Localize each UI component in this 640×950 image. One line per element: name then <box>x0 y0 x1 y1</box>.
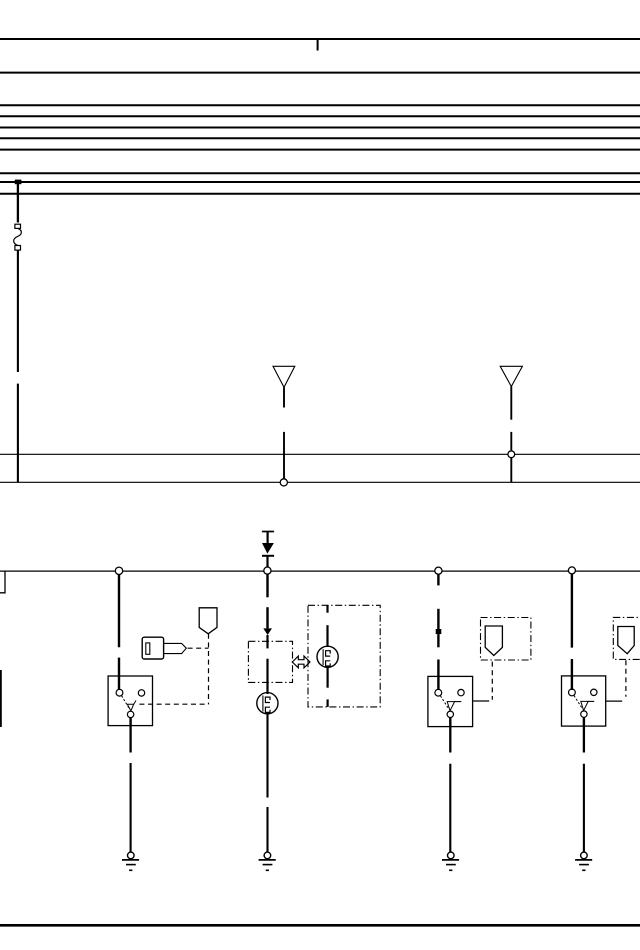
dash-dot component box B <box>308 605 380 707</box>
mid rail B <box>0 481 640 483</box>
switch 3 arrow bar <box>588 700 594 702</box>
switch 2 arrow head <box>447 702 454 711</box>
switch 1 contact top-right <box>138 690 144 696</box>
antenna-style triangle 1 <box>273 366 295 387</box>
wire column 1 lower <box>118 658 120 690</box>
diode D1 triangle <box>262 543 274 554</box>
switch 2 lever <box>440 696 448 709</box>
bus line 1 (top rail) <box>0 38 640 40</box>
dash-dot component box A <box>248 641 292 682</box>
pennant tag 1 <box>199 608 217 634</box>
wire column 4 upper <box>571 574 573 648</box>
wire column 2 segment c <box>266 635 268 648</box>
node circle column 2 <box>264 567 271 574</box>
wire below switch 1 lower <box>130 763 132 852</box>
switch 3 contact bottom <box>581 711 587 717</box>
wire column 1 upper <box>118 574 120 647</box>
ground G4 <box>575 852 592 870</box>
bus line 2 <box>0 72 640 74</box>
wire column 3 segment a <box>437 574 439 585</box>
bus line 8 <box>0 172 640 174</box>
bus line 9 <box>0 181 640 183</box>
bulb L2 <box>317 646 338 667</box>
antenna-style triangle 2 <box>500 366 522 386</box>
distribution rail (y=571) <box>0 570 640 572</box>
vertical dashed mechanical linkage 1 <box>208 634 210 704</box>
pennant tag 3 <box>618 627 634 654</box>
stem of triangle 1, lower <box>283 432 285 479</box>
connector circle of triangle 2 on rail A <box>508 451 515 458</box>
wire below switch 1 upper <box>129 726 131 753</box>
ground G1 <box>122 852 139 870</box>
wire column 3 segment c <box>437 634 439 647</box>
bottom border line <box>0 924 640 927</box>
pennant box 2 <box>481 618 531 661</box>
switch 2 contact top-left <box>435 689 442 696</box>
switch 3 actuation stub <box>606 700 623 702</box>
wire below switch 2 inside box <box>449 718 451 727</box>
wire below switch 2 lower <box>449 764 451 853</box>
stem of triangle 1, upper <box>283 387 285 407</box>
wire below fuse, upper segment <box>17 250 19 372</box>
ignition key symbol <box>142 637 186 659</box>
wire in box B top tick <box>326 605 328 612</box>
direction arrow on wire column 2 <box>263 628 272 635</box>
vertical dashed mechanical linkage 2 <box>491 662 493 700</box>
switch 3 contact top-right <box>591 689 597 695</box>
diode D1 wire <box>267 532 269 544</box>
wire in box B bottom tick <box>327 699 329 707</box>
wire below bulb L1 lower <box>266 807 268 852</box>
ground G2 <box>259 852 276 870</box>
wire in box B upper <box>326 625 328 647</box>
node circle column 3 <box>435 567 442 574</box>
switch 2 arrow bar <box>455 701 462 703</box>
pennant tag 2 <box>485 626 502 656</box>
junction square on wire column 3 <box>436 629 442 634</box>
partial switch box at left edge <box>0 670 2 727</box>
bus line 6 <box>0 137 640 139</box>
mid rail A <box>0 453 640 455</box>
switch 2 contact bottom <box>447 711 453 717</box>
switch 1 actuation dashed line <box>139 703 208 705</box>
switch 2 contact top-right <box>458 689 464 695</box>
bus line 10 <box>0 193 640 195</box>
switch 1 arrow head <box>127 704 133 711</box>
node circle column 1 <box>115 567 122 574</box>
junction square on bus line 9 <box>15 180 22 185</box>
wire below switch 1 inside box <box>129 718 131 726</box>
pennant box 3 <box>613 617 640 659</box>
wire column 3 segment b <box>437 609 439 629</box>
bus line 7 <box>0 149 640 151</box>
bus line 5 <box>0 127 640 129</box>
switch 1 contact bottom <box>127 711 133 717</box>
wire column 3 segment d <box>437 660 439 691</box>
wire column 2 segment a <box>266 574 268 597</box>
wire column 4 lower <box>571 659 573 690</box>
left step of distribution rail <box>0 571 5 593</box>
bus line 3 <box>0 104 640 106</box>
ground G3 <box>442 852 459 870</box>
switch 1 lever <box>122 696 130 709</box>
diode D1 anode bar <box>262 531 274 533</box>
wire below bulb L1 upper <box>266 713 268 798</box>
wire in box B lower <box>327 666 329 687</box>
bulb L1 <box>257 693 278 714</box>
wire below switch 3 upper <box>583 726 585 752</box>
wire below switch 2 upper <box>449 727 451 753</box>
diode D1 cathode bar <box>262 555 274 557</box>
wire below fuse, lower segment <box>17 384 19 483</box>
diode D1 lead to rail <box>266 556 268 567</box>
switch 3 arrow head <box>581 701 588 710</box>
connector circle of triangle 1 on rail B <box>280 479 287 486</box>
switch 2 actuation stub <box>473 700 490 702</box>
stem of triangle 2, lower <box>510 432 512 482</box>
switch 3 lever <box>574 696 582 709</box>
tap tick on bus line 1 <box>317 39 319 51</box>
wire below switch 3 lower <box>583 764 585 853</box>
vertical dashed mechanical linkage 3 <box>625 660 627 697</box>
wire column 2 segment d <box>266 659 268 694</box>
fuse S (automatic circuit breaker) <box>14 224 22 250</box>
mechanical coupling double arrow <box>292 656 310 668</box>
switch 1 contact top-left <box>116 689 123 696</box>
switch box 3 <box>562 676 606 726</box>
node circle column 4 <box>568 567 575 574</box>
wire from bus 9 down to fuse <box>17 182 19 223</box>
switch 1 arrow tick <box>134 701 136 705</box>
wire column 2 segment b <box>266 607 268 628</box>
switch 3 contact top-left <box>569 689 576 696</box>
bus line 4 <box>0 115 640 117</box>
stem of triangle 2, upper <box>510 387 512 420</box>
switch box 1 <box>108 676 152 726</box>
switch box 2 <box>428 676 473 726</box>
dashed link from key to linkage <box>188 647 209 649</box>
wire below switch 3 inside box <box>583 717 585 726</box>
